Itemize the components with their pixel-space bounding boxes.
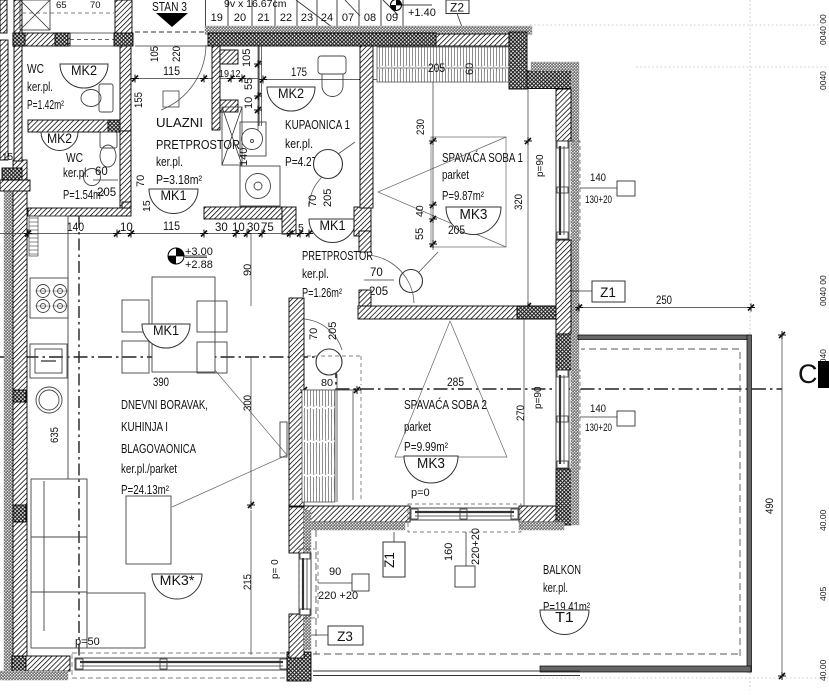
bedroom2 dim vline (523, 319, 525, 507)
bedroom1 window outer dashed (571, 141, 580, 240)
grid dotted line vertical right lower (749, 673, 751, 690)
svg-text:230: 230 (415, 119, 427, 135)
entry opening bottom line (135, 45, 208, 47)
label box Z3 (328, 626, 363, 645)
wc1 bottom wall block (108, 120, 120, 132)
stan 3 arrow triangle (156, 13, 188, 27)
level marker +1.40 (391, 0, 433, 11)
staircase diagonal 3 (383, 0, 398, 15)
sw corner block (287, 652, 311, 681)
bedroom2 window outer dashed (571, 370, 580, 469)
bedroom2 top wall dark block (517, 306, 556, 319)
svg-text:ker.pl.: ker.pl. (543, 581, 568, 595)
wc1 right wall (120, 46, 131, 131)
svg-text:70: 70 (135, 175, 147, 187)
hall2 door diagonal (419, 252, 438, 272)
svg-text:MK1: MK1 (319, 217, 345, 233)
kitchen tall cabinet hatch (29, 216, 38, 256)
dim tick (200, 230, 208, 238)
svg-text:30: 30 (247, 222, 260, 234)
svg-text:Z1: Z1 (382, 552, 397, 568)
balcony door leader (318, 582, 352, 584)
svg-text:KUPAONICA 1: KUPAONICA 1 (285, 118, 350, 132)
svg-text:55: 55 (243, 78, 255, 90)
svg-text:40: 40 (414, 205, 426, 217)
insulation stipple right upper (571, 71, 579, 142)
label box Z2 top (446, 0, 469, 14)
insulation stipple bottom left (0, 671, 68, 680)
svg-text:p=0: p=0 (411, 487, 430, 499)
window2 square (617, 411, 635, 426)
bath dim line 175 (259, 79, 377, 81)
staircase direction diagonal (296, 0, 332, 27)
svg-text:60: 60 (95, 166, 108, 178)
svg-text:0040 00: 0040 00 (818, 14, 828, 45)
balcony window square (455, 566, 475, 587)
svg-text:130+20: 130+20 (585, 194, 612, 206)
dim tick (258, 230, 266, 238)
top wall block at 114 (114, 33, 133, 46)
insulation stipple living right (304, 510, 311, 650)
svg-text:KUHINJA I: KUHINJA I (121, 419, 168, 434)
living sliding window (75, 658, 287, 670)
bedroom1 right wall (556, 89, 571, 141)
svg-text:320: 320 (513, 194, 525, 210)
kitchen counter edge line (28, 216, 68, 479)
svg-text:MK1: MK1 (160, 187, 186, 203)
dim tick (127, 230, 135, 238)
svg-text:175: 175 (291, 67, 307, 79)
dim tick (113, 230, 121, 238)
svg-text:15: 15 (2, 152, 14, 163)
svg-text:55: 55 (414, 228, 426, 240)
bedroom2 wardrobe hatch (302, 390, 335, 502)
shaft box with X (222, 107, 242, 165)
svg-text:220 +20: 220 +20 (318, 590, 358, 602)
top wall band bedroom1 (436, 34, 509, 46)
entry opening dashed (135, 31, 206, 33)
washing machine (240, 166, 280, 206)
svg-text:0040 00: 0040 00 (818, 275, 828, 306)
insulation stipple se corner (571, 450, 579, 525)
bedroom2 right wall (556, 240, 571, 334)
grid dotted line horizontal top (530, 24, 829, 26)
insulation stipple bottom b2r (519, 522, 564, 530)
svg-text:205: 205 (322, 189, 334, 207)
table2 (126, 496, 171, 564)
hall bottom wall block (282, 207, 296, 234)
svg-text:+3.00: +3.00 (185, 246, 213, 258)
svg-text:285: 285 (447, 377, 464, 389)
svg-text:70: 70 (307, 195, 319, 207)
bedroom2 wardrobe front (336, 374, 338, 502)
svg-text:12: 12 (231, 69, 241, 80)
bedroom1 dim vline (432, 82, 434, 250)
staircase diagonal 2 (345, 0, 360, 16)
balcony window leader (465, 532, 467, 566)
bath door circle (314, 150, 343, 179)
window1 square (617, 181, 635, 196)
hall2 right wall lower (359, 290, 371, 306)
label box Z1 rotated (383, 542, 405, 577)
svg-text:P=1.26m²: P=1.26m² (302, 286, 342, 300)
svg-text:390: 390 (153, 377, 169, 389)
door marker MK3* living (152, 572, 202, 599)
window3 dashed (299, 549, 318, 618)
upper shaft box with X (20, 0, 50, 30)
svg-text:ker.pl.: ker.pl. (63, 166, 89, 180)
svg-text:MK3: MK3 (417, 455, 445, 472)
grid dotted line horizontal second (636, 66, 829, 68)
door marker MK1 pretprostor (309, 217, 356, 242)
bedroom2 door dashed b (360, 356, 362, 385)
kitchen sink (36, 387, 62, 413)
wc top opening edge bottom (70, 45, 114, 47)
wc top wall block left (13, 33, 25, 46)
bedroom2 top wall (358, 306, 556, 319)
wc top wall block right (55, 33, 68, 46)
svg-text:115: 115 (163, 221, 180, 233)
svg-text:9v x 16.67cm: 9v x 16.67cm (224, 0, 287, 10)
bedroom2 bottom wall right (519, 506, 556, 522)
svg-text:parket: parket (442, 168, 469, 182)
dim tick (296, 230, 304, 238)
svg-text:0040: 0040 (818, 349, 828, 368)
bath toilet (318, 56, 346, 97)
balcony top edge (578, 335, 751, 340)
svg-text:70: 70 (370, 267, 383, 279)
bath wash basin (240, 122, 266, 156)
dim tick (243, 230, 251, 238)
door marker MK2 wc2 (41, 131, 78, 151)
svg-text:STAN 3: STAN 3 (152, 0, 187, 14)
bath door diagonal (338, 142, 355, 154)
svg-text:215: 215 (242, 574, 254, 590)
svg-text:+1.40: +1.40 (408, 7, 436, 19)
hall2 door swing arc (367, 255, 414, 303)
svg-text:SPAVAĆA SOBA 2: SPAVAĆA SOBA 2 (404, 397, 487, 412)
section line C (0, 357, 782, 389)
svg-text:07: 07 (342, 12, 354, 24)
svg-text:140: 140 (238, 148, 250, 166)
svg-text:105: 105 (241, 49, 253, 67)
svg-text:205: 205 (448, 225, 465, 237)
svg-text:ker.pl./parket: ker.pl./parket (121, 462, 177, 476)
bedroom2 wardrobe front2 (352, 391, 354, 500)
bathroom left wall line2 (261, 46, 263, 126)
insulation stipple ne strip (531, 62, 579, 71)
svg-text:250: 250 (656, 295, 672, 307)
svg-text:115: 115 (163, 66, 180, 78)
svg-text:BALKON: BALKON (543, 563, 581, 577)
svg-text:ker.pl.: ker.pl. (302, 267, 329, 281)
svg-text:Z2: Z2 (450, 1, 464, 15)
bedroom2 window (556, 370, 569, 469)
dim tick (24, 230, 32, 238)
insulation stipple bottom b2 (309, 522, 405, 530)
bath door swing arc (309, 177, 322, 207)
hall bottom wall (204, 207, 282, 219)
svg-text:140: 140 (590, 172, 606, 184)
svg-text:MK2: MK2 (71, 62, 97, 78)
svg-text:P=9.87m²: P=9.87m² (442, 189, 484, 203)
living bottom wall (26, 656, 70, 671)
bedroom2 bottom wall left (300, 506, 410, 522)
svg-text:205: 205 (428, 63, 445, 75)
bedroom2 door circle (316, 349, 342, 375)
bath vertical dim line (257, 46, 259, 130)
svg-text:30: 30 (215, 222, 228, 234)
top-right corner block (509, 32, 527, 89)
svg-text:70: 70 (308, 328, 320, 340)
window2 leader (580, 416, 617, 418)
balcony door square (352, 574, 369, 591)
svg-text:21: 21 (257, 12, 269, 24)
svg-text:C: C (798, 359, 818, 389)
door marker MK1 ulazni (149, 187, 198, 213)
svg-text:MK2: MK2 (278, 85, 304, 101)
svg-text:24: 24 (321, 12, 333, 24)
dining table (152, 277, 215, 372)
kitchen dishwasher (30, 344, 67, 378)
door marker MK1 dining (142, 322, 190, 348)
svg-text:220: 220 (171, 46, 183, 62)
svg-text:405: 405 (818, 587, 828, 601)
level underline (185, 257, 207, 259)
section mark black bar (818, 361, 829, 388)
shaft wall vertical (212, 46, 220, 130)
upper dashed line (22, 12, 114, 14)
svg-text:205: 205 (327, 322, 339, 340)
bedroom1 wardrobe mid line (377, 67, 509, 69)
insulation stipple top band (205, 26, 532, 35)
staircase bottom double line (205, 27, 530, 29)
living dash-dot vertical (78, 216, 80, 660)
bathroom right wall (360, 46, 373, 208)
bedroom1 label frame (431, 137, 506, 247)
svg-text:80: 80 (321, 377, 333, 389)
sofa (31, 479, 145, 648)
svg-text:10: 10 (120, 222, 133, 234)
bathroom left wall line (258, 46, 260, 126)
window1 leader (580, 187, 617, 189)
shaft nub top (220, 50, 238, 64)
svg-text:40.00: 40.00 (818, 659, 828, 681)
top wall band over stairs (208, 33, 436, 46)
svg-text:20: 20 (234, 12, 246, 24)
svg-text:205: 205 (369, 286, 388, 298)
sw corner bedroom2 block (289, 506, 305, 534)
hall2 door dim line (364, 279, 394, 281)
living window dashed outline (72, 653, 290, 678)
bedroom1 window (556, 141, 569, 240)
balcony slab lines bottom left (313, 670, 580, 672)
dim tick (286, 230, 294, 238)
insulation stipple right lower (571, 334, 579, 450)
svg-text:105: 105 (149, 46, 161, 62)
left wall band neighbor (0, 180, 30, 191)
svg-text:0040: 0040 (818, 71, 828, 90)
svg-text:40.00: 40.00 (818, 509, 828, 531)
left wall upper hatch wc (14, 46, 22, 161)
svg-text:70: 70 (90, 0, 101, 11)
dim tick (305, 230, 313, 238)
svg-text:60: 60 (464, 63, 476, 75)
left wall upper thin (0, 40, 8, 160)
svg-text:P=3.18m²: P=3.18m² (156, 173, 202, 187)
svg-text:p= 0: p= 0 (270, 559, 281, 579)
svg-text:MK3*: MK3* (160, 572, 195, 588)
balcony right edge (747, 335, 752, 672)
balcony bottom edge (540, 666, 751, 672)
svg-text:155: 155 (133, 92, 145, 108)
svg-text:P=1.42m²: P=1.42m² (27, 98, 64, 112)
svg-text:p=50: p=50 (75, 636, 100, 648)
svg-text:T1: T1 (555, 609, 574, 626)
wc2 dim line (93, 179, 118, 181)
door marker MK2 wc1 (60, 62, 108, 88)
svg-text:10: 10 (232, 222, 245, 234)
living dim vline 300 (250, 357, 252, 505)
svg-text:ker.pl.: ker.pl. (27, 80, 53, 94)
svg-text:220+20: 220+20 (470, 528, 482, 565)
living leader lines (172, 349, 287, 507)
door marker MK2 bath (267, 85, 315, 111)
left outer wall hatch (13, 160, 27, 658)
wc top wall (13, 33, 70, 46)
wc1 toilet (81, 84, 113, 112)
svg-text:MK3: MK3 (460, 206, 488, 223)
balcony dashed inner rect (313, 349, 740, 656)
dim line 250 (579, 307, 751, 309)
svg-text:90: 90 (329, 566, 341, 578)
bedroom1 dim vline 320 (527, 88, 529, 306)
shaft nub mid (220, 100, 238, 112)
kitchen stove (30, 278, 68, 318)
wc2 toilet (100, 132, 117, 167)
bedroom1 leader diagonals (378, 137, 506, 247)
entry door swing arc (161, 45, 206, 110)
door marker MK3 bedroom1 (446, 206, 501, 235)
svg-text:22: 22 (280, 12, 292, 24)
bedroom2 balcony window dashed (408, 504, 521, 532)
living right wall upper seg (289, 507, 304, 553)
svg-text:P=9.99m²: P=9.99m² (404, 440, 448, 454)
svg-text:parket: parket (404, 420, 431, 434)
left wall block lower (13, 505, 26, 522)
entry dim line y78 (131, 78, 258, 80)
level marker +3.00 (168, 248, 207, 264)
svg-text:BLAGOVAONICA: BLAGOVAONICA (121, 441, 196, 456)
entry door mat (163, 91, 179, 107)
svg-text:ker.pl.: ker.pl. (156, 155, 183, 169)
wc top opening edge top (70, 32, 114, 34)
kitchen counter band (28, 208, 131, 216)
staircase tread numbers (211, 12, 399, 24)
dining chairs (122, 300, 227, 373)
hall2 right wall upper (359, 231, 371, 252)
insulation stipple right mid (571, 142, 579, 334)
door marker MK3 bedroom2 (404, 455, 458, 483)
kitchen counter step (122, 202, 131, 208)
svg-text:08: 08 (364, 12, 376, 24)
wall block right of mk1 (354, 207, 371, 236)
left wall block a (2, 168, 22, 180)
far left wall top strip (0, 0, 7, 33)
svg-text:MK1: MK1 (153, 322, 179, 338)
svg-text:205: 205 (97, 187, 116, 199)
upper wc right wall (115, 0, 132, 33)
svg-text:MK2: MK2 (47, 131, 72, 146)
svg-text:140: 140 (67, 222, 84, 234)
svg-text:270: 270 (515, 405, 527, 421)
label box Z1 right (592, 281, 625, 302)
svg-text:WC: WC (27, 62, 44, 76)
svg-text:75: 75 (261, 222, 274, 234)
wc2 wash basin circle (84, 169, 101, 186)
svg-text:Z3: Z3 (337, 629, 353, 644)
svg-text:p=90: p=90 (533, 386, 544, 409)
svg-text:130+20: 130+20 (585, 422, 612, 434)
wc1 bottom wall (28, 120, 120, 132)
bedroom2 dim line 80 (300, 389, 361, 391)
svg-text:90: 90 (242, 264, 254, 276)
staircase steps (206, 0, 404, 27)
svg-text:65: 65 (56, 0, 67, 11)
dimension row line y233 (0, 233, 311, 235)
svg-text:5: 5 (298, 222, 304, 234)
hall2 dim vline (250, 233, 252, 306)
bedroom2 right wall block (556, 334, 571, 370)
left wall top segment (14, 0, 22, 33)
living radiator (280, 422, 287, 457)
svg-text:Z1: Z1 (600, 285, 616, 300)
bedroom2 door dashed a (300, 355, 363, 357)
bedroom2 wardrobe dashed (360, 390, 362, 500)
bedroom2 balcony window (410, 508, 519, 520)
svg-text:23: 23 (301, 12, 313, 24)
left wall block kitchen (13, 390, 26, 402)
svg-text:160: 160 (443, 543, 455, 561)
terrace marker T1 (540, 609, 589, 635)
svg-text:P=24.13m²: P=24.13m² (121, 483, 169, 497)
svg-text:140: 140 (590, 403, 606, 415)
svg-text:+2.88: +2.88 (185, 259, 213, 271)
hall2 door circle (400, 270, 423, 293)
svg-text:ker.pl.: ker.pl. (285, 137, 313, 151)
grid dotted line vertical right (749, 0, 751, 335)
living right wall lower seg (289, 614, 304, 658)
bedroom2 triangle (395, 321, 507, 457)
wc top opening dashed (70, 39, 114, 41)
left outer wall stipple (4, 185, 13, 680)
dim line 490 (781, 335, 783, 676)
window3 left living (299, 553, 311, 615)
svg-text:19: 19 (211, 12, 223, 24)
svg-text:19: 19 (219, 69, 229, 80)
svg-text:635: 635 (49, 427, 61, 443)
svg-text:490: 490 (764, 498, 776, 514)
svg-text:WC: WC (66, 151, 83, 165)
living-bedroom2 wall (289, 298, 304, 507)
living dim vline 215 (250, 510, 252, 655)
bedroom2 door arc (304, 319, 342, 350)
svg-text:p=90: p=90 (535, 154, 546, 177)
bedroom1 right wall lower (556, 240, 571, 334)
svg-text:300: 300 (242, 395, 254, 411)
bedroom1 wardrobe hatch (377, 47, 509, 82)
svg-text:15: 15 (141, 200, 153, 212)
